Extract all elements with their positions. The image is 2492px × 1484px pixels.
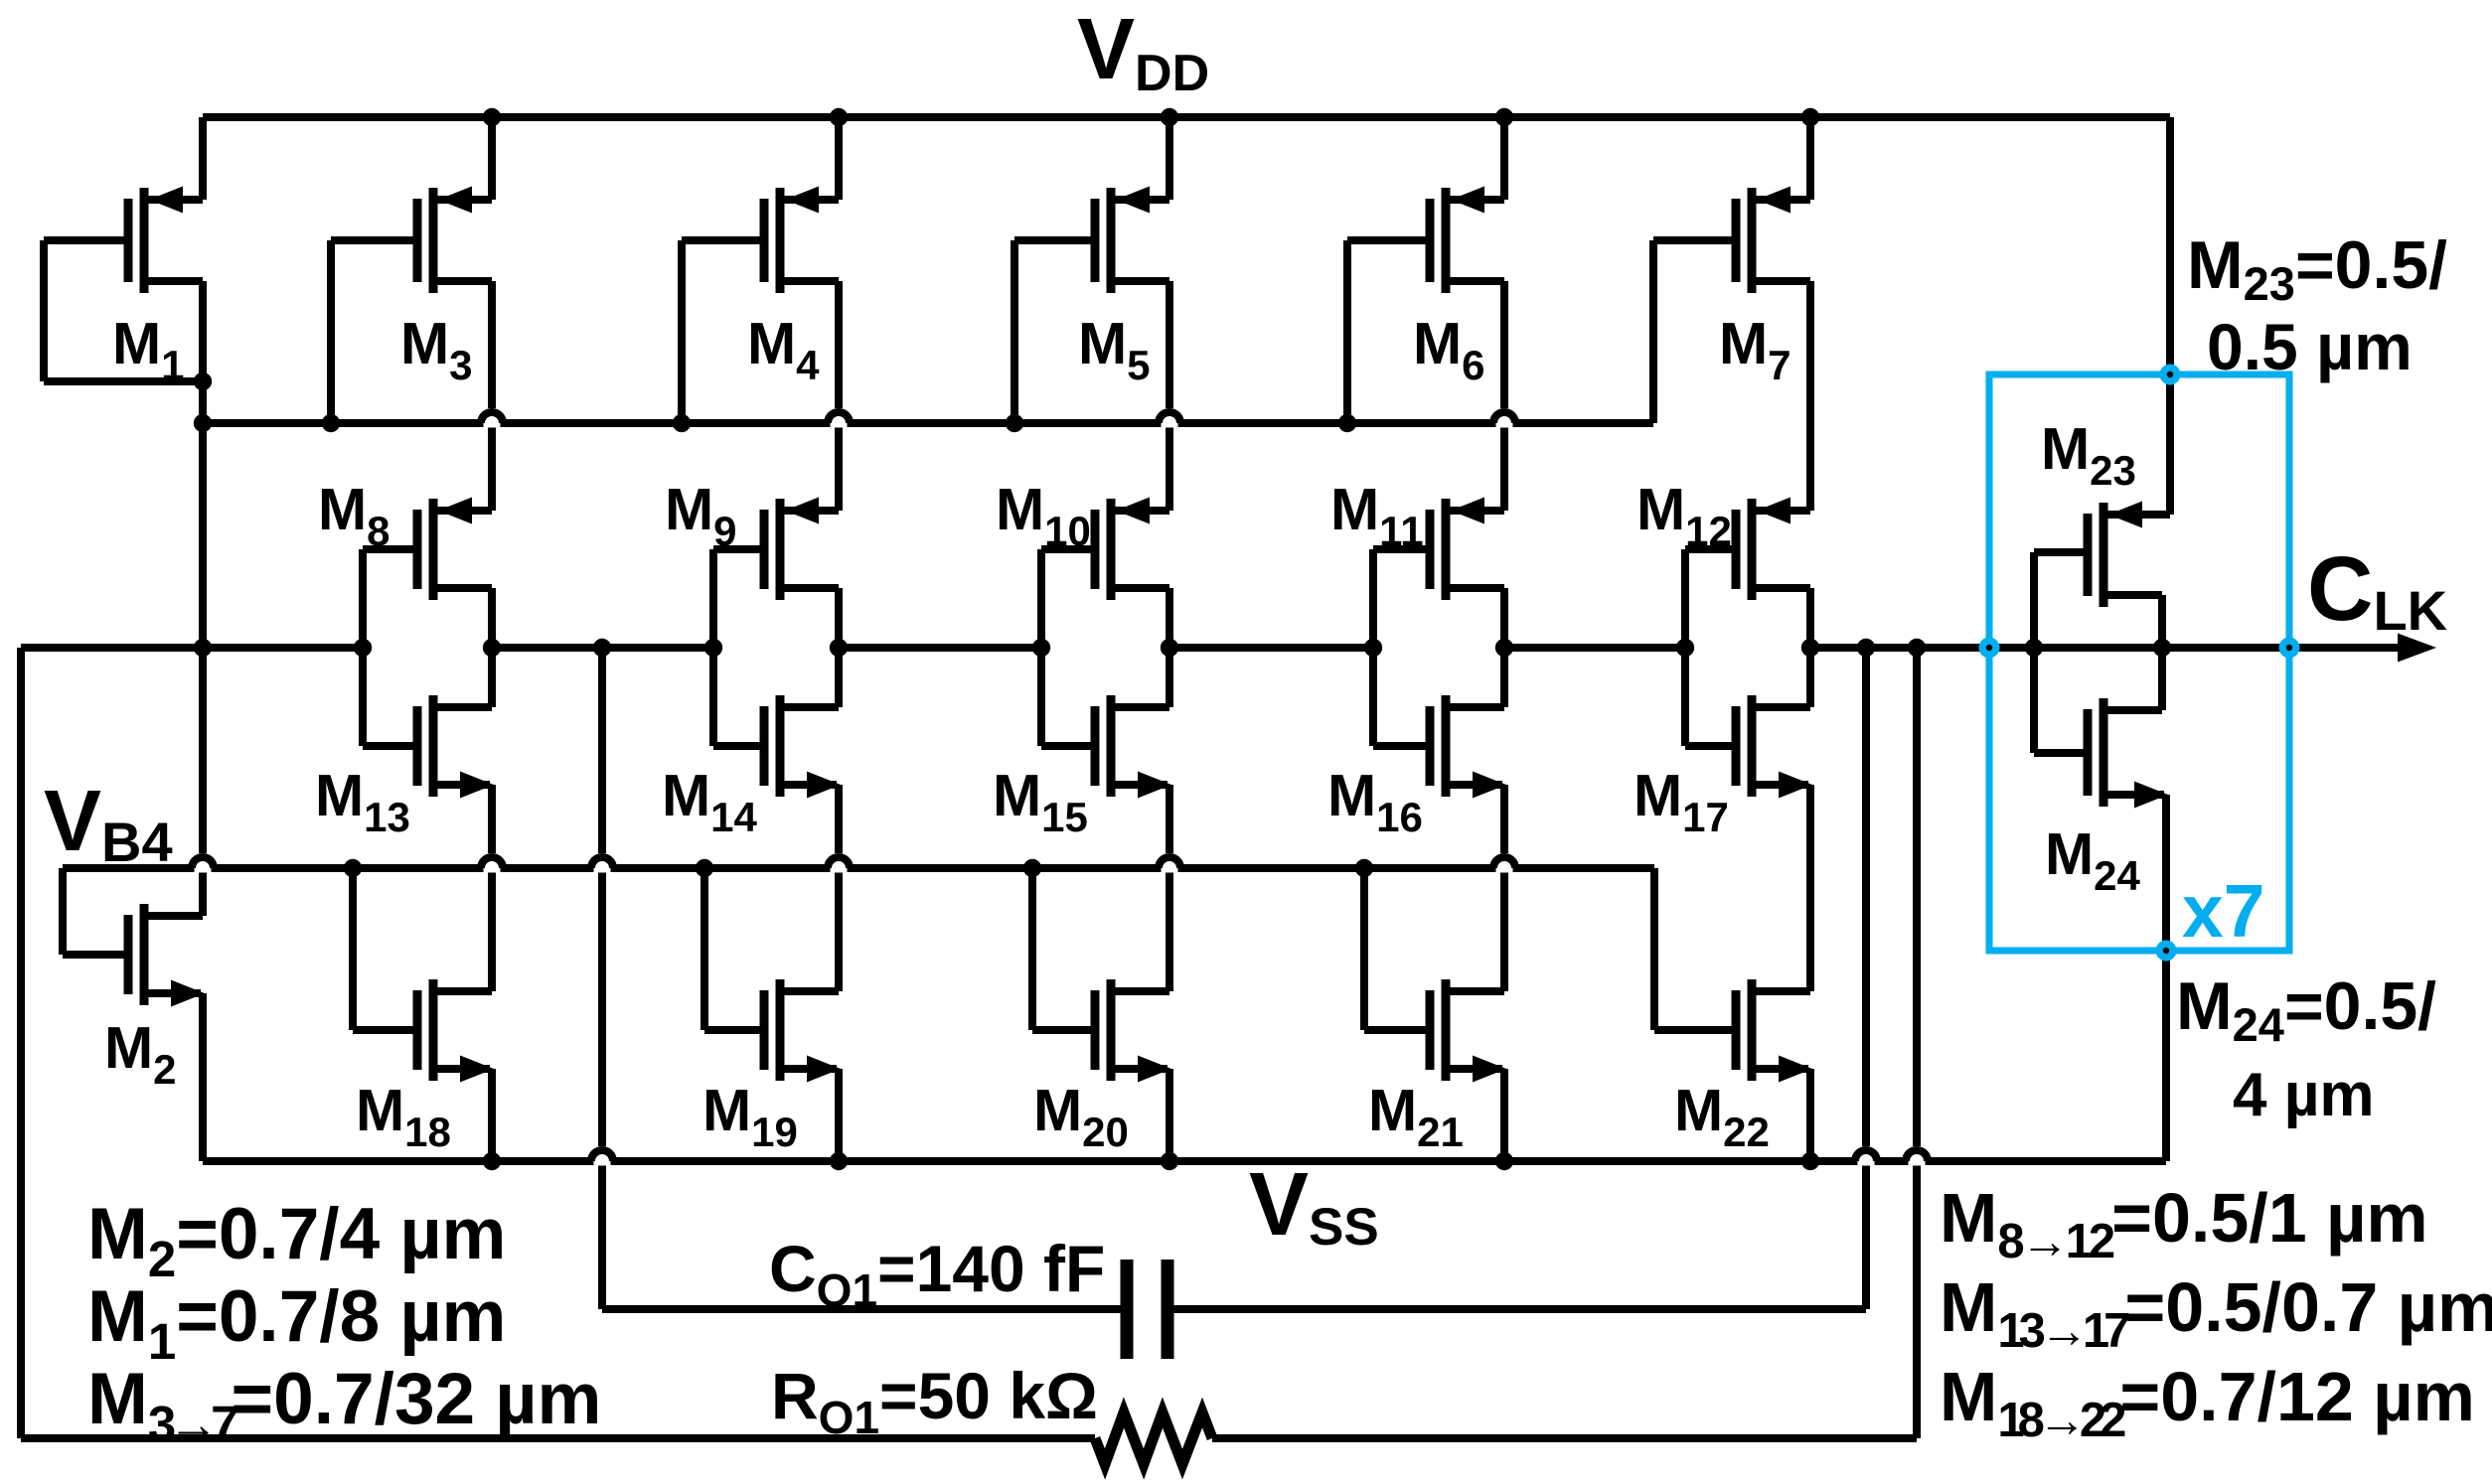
svg-text:M24=0.5/: M24=0.5/	[2176, 968, 2436, 1051]
svg-text:0.5 µm: 0.5 µm	[2207, 310, 2413, 383]
svg-text:4 µm: 4 µm	[2233, 1061, 2375, 1129]
svg-text:M23=0.5/: M23=0.5/	[2187, 227, 2447, 310]
svg-text:x7: x7	[2182, 869, 2264, 953]
